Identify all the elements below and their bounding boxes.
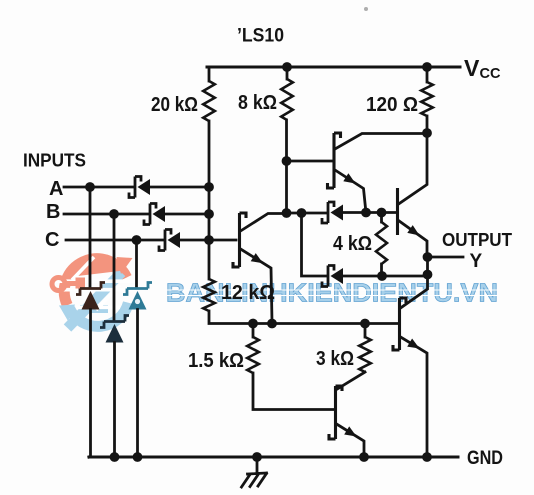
watermark logo blue arrow tip [59,305,75,322]
svg-text:’LS10: ’LS10 [237,26,284,47]
svg-text:8 kΩ: 8 kΩ [238,92,277,114]
diode DB (schottky input B) [144,204,156,225]
wire C clamp to gnd [136,310,139,458]
wire output to Q4 collector [401,257,428,308]
node gnd symbol [252,452,262,462]
wire D5 to output node [343,275,428,278]
diode D5 speedup lower [322,266,334,287]
wire mid speedup line left [287,212,327,215]
resistor R3 120 Ohm [426,67,429,82]
wire input B drop line [113,214,116,321]
wire input C [66,239,164,242]
node Q2 emitter junction [361,208,371,218]
wire input A [64,186,134,189]
node 3k top [360,319,370,329]
resistor R4 4 kOhm [380,213,383,223]
watermark logo ring pink arc [64,259,126,306]
wire A clamp to gnd [89,310,91,458]
wire input B [64,213,149,216]
resistor R6 1.5 kOhm [252,324,255,338]
svg-text:INPUTS: INPUTS [23,151,86,171]
watermark logo white diagonal gap [72,257,120,310]
scan speck [364,7,368,11]
watermark logo blue slash [68,273,122,329]
wire output Y stub [428,256,464,259]
resistor R2 8 kOhm [286,67,289,79]
diode D4 speedup upper [322,202,334,223]
node bus C [204,235,214,245]
watermark text stripes [166,290,498,296]
svg-text:C: C [45,229,59,251]
node VCC 8k [282,62,292,72]
node bus A [204,182,214,192]
diode D2 clamp input B [100,316,129,328]
wire 3k to Q5 collector [337,372,366,390]
wire input C drop line [135,240,138,288]
node Q1 emitter [267,319,277,329]
node 8k / Q2 base [282,156,292,166]
node 4k bottom [377,271,387,281]
node input A junction [85,182,95,192]
wire B clamp to gnd [113,343,116,458]
diode D1 clamp input A [76,283,105,295]
ground symbol [242,457,267,487]
wire GND rail [89,456,458,459]
svg-text:CC: CC [480,65,501,82]
transistor Q3 output darlington [396,188,399,235]
node 4k top [377,208,387,218]
wire 1.5k to Q5 base [253,373,335,410]
node gnd C [133,452,143,462]
wire 120R to collector node [426,116,429,133]
diode D3 clamp input C [123,283,152,295]
svg-text:1.5 kΩ: 1.5 kΩ [188,350,244,372]
wire input A drop line [89,187,92,288]
wire A diode to bus [150,186,209,189]
svg-text:B: B [46,201,60,223]
node output branch [423,270,433,280]
svg-text:3 kΩ: 3 kΩ [316,348,354,370]
svg-text:20 kΩ: 20 kΩ [151,94,198,116]
diode DC (schottky input C) [159,230,171,251]
node Q1 collector / 8k [282,208,292,218]
wire 8k to Q1 collector node [285,120,288,213]
transistor Q5 squaring network [329,386,342,439]
svg-text:4 kΩ: 4 kΩ [333,233,372,255]
node input B junction [109,209,119,219]
node output Y [423,252,433,262]
resistor R7 3 kOhm [364,324,367,338]
svg-text:A: A [49,178,63,200]
watermark logo pink inner bar [77,266,119,271]
node gnd Q4 [422,452,432,462]
svg-text:12 kΩ: 12 kΩ [221,282,275,304]
resistor R1 20 kOhm [208,67,211,81]
svg-text:Y: Y [470,251,483,272]
wire Q2 base [287,160,334,163]
svg-text:OUTPUT: OUTPUT [442,230,512,250]
wire VCC rail [207,66,460,69]
wire C diode to bus and Q1 base [180,239,236,242]
wire mid speedup line right [343,211,397,214]
diode DA (schottky input A) [129,177,141,198]
transistor Q4 output pulldown [393,298,406,350]
watermark logo ring blue arc [69,303,128,327]
node VCC 120R [422,62,432,72]
transistor Q2 darlington driver [328,133,341,188]
watermark logo blue inner foot [80,305,108,313]
watermark logo pin icon [52,278,65,291]
node 120R / collectors [422,128,432,138]
svg-text:120 Ω: 120 Ω [366,94,418,116]
node gnd B [110,452,120,462]
node 1.5k top [248,319,258,329]
svg-text:GND: GND [467,448,503,469]
wire D5 branch vertical [302,213,327,276]
node input C junction [132,235,142,245]
svg-text:V: V [464,55,480,81]
wire B diode to bus [165,213,209,216]
resistor R5 12 kOhm [203,279,215,311]
watermark logo white stripes [54,281,136,307]
wire Q1 emitter rail [209,311,399,324]
watermark logo pink arrow tip [117,257,133,274]
node mid line x302 [297,208,307,218]
node gnd Q5 [359,452,369,462]
wire input-diode bus (20k bottom) [208,121,211,279]
transistor Q1 phase splitter [233,213,246,267]
node bus B [204,209,214,219]
